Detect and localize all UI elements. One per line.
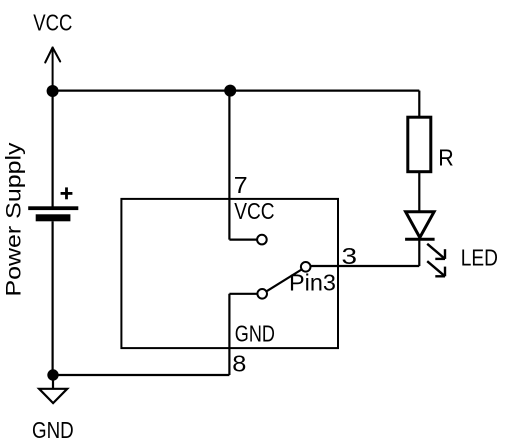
- wire: pin 7 lead: [228, 91, 230, 240]
- svg-text:8: 8: [232, 351, 246, 377]
- wire: pin 7 internal stub: [229, 239, 256, 241]
- wire: battery positive lead: [51, 91, 53, 207]
- wire: resistor to LED: [418, 172, 420, 212]
- switch output contact: [301, 262, 311, 272]
- junction dot: pin 7 branch: [224, 85, 236, 97]
- junction dot: ground node: [47, 369, 58, 380]
- svg-text:VCC: VCC: [33, 10, 72, 36]
- svg-text:GND: GND: [32, 417, 74, 439]
- switch common contact: [257, 289, 267, 299]
- pin 7 contact circle: [257, 235, 267, 245]
- wire: resistor top lead: [418, 91, 420, 117]
- resistor R: [408, 117, 431, 172]
- wire: ground rail: [53, 374, 229, 376]
- wire: switch common stub: [229, 293, 256, 295]
- svg-text:Pin3: Pin3: [289, 269, 336, 295]
- svg-text:Power Supply: Power Supply: [3, 142, 26, 297]
- VCC power arrow: [45, 48, 60, 92]
- LED D1: [405, 212, 435, 240]
- IC U1 body: [121, 199, 338, 348]
- switch lever: [267, 270, 302, 292]
- svg-text:VCC: VCC: [234, 198, 274, 224]
- wire: battery negative lead: [51, 221, 53, 375]
- svg-text:R: R: [438, 144, 454, 170]
- svg-text:7: 7: [234, 172, 248, 198]
- ground symbol: [39, 375, 67, 403]
- wire: LED bottom lead: [418, 239, 420, 266]
- svg-text:GND: GND: [235, 320, 275, 346]
- LED light emission arrows: [427, 244, 445, 276]
- battery BT1 power supply: [28, 187, 78, 221]
- wire: pin 8 lead: [228, 294, 230, 375]
- wire: pin 3 to LED: [311, 265, 420, 267]
- wire: top VCC rail: [53, 89, 420, 91]
- junction dot: VCC at battery: [47, 85, 59, 97]
- svg-text:LED: LED: [461, 245, 498, 271]
